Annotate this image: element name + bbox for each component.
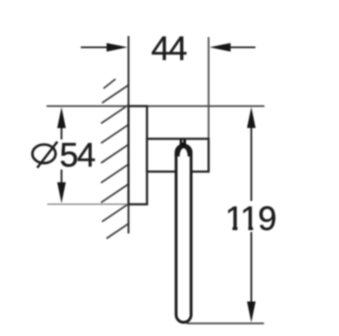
svg-text:119: 119: [225, 200, 276, 238]
wall hatch bottom stub: [107, 224, 129, 239]
dim 119 line upper: [250, 112, 252, 201]
plate (side view): [129, 106, 148, 204]
wall hatch stub: [104, 79, 116, 89]
dim 44 left leader: [81, 46, 110, 48]
dim 119 up arrow: [247, 107, 256, 128]
dim Ø54 line lower: [61, 170, 63, 199]
dim Ø54 line upper: [61, 112, 63, 140]
diameter symbol circle: [32, 145, 55, 164]
right extension line: [208, 37, 210, 140]
wall line: [128, 36, 130, 234]
dim Ø54 up arrow: [57, 107, 66, 128]
top extension line: [47, 105, 265, 107]
svg-text:54: 54: [60, 137, 95, 175]
dim 44 left arrow: [107, 43, 128, 52]
bottom-left extension line: [47, 203, 128, 205]
dim 119 down arrow: [247, 302, 256, 323]
ring (capsule): [176, 145, 191, 322]
wall hatch lines: [102, 85, 129, 103]
dim 44 right arrow: [210, 43, 231, 52]
ring pivot pin: [180, 140, 186, 147]
dim 44 right leader: [229, 46, 255, 48]
dim 119 line lower: [250, 232, 252, 317]
housing: [147, 139, 209, 172]
dim Ø54 down arrow: [57, 182, 66, 203]
ring dome arch (filled): [175, 144, 193, 157]
svg-text:44: 44: [151, 30, 186, 68]
bottom-right extension line: [187, 322, 265, 324]
diameter symbol slash: [37, 142, 57, 168]
white patches to remove Liberation "1" foot serifs: [226, 227, 232, 232]
